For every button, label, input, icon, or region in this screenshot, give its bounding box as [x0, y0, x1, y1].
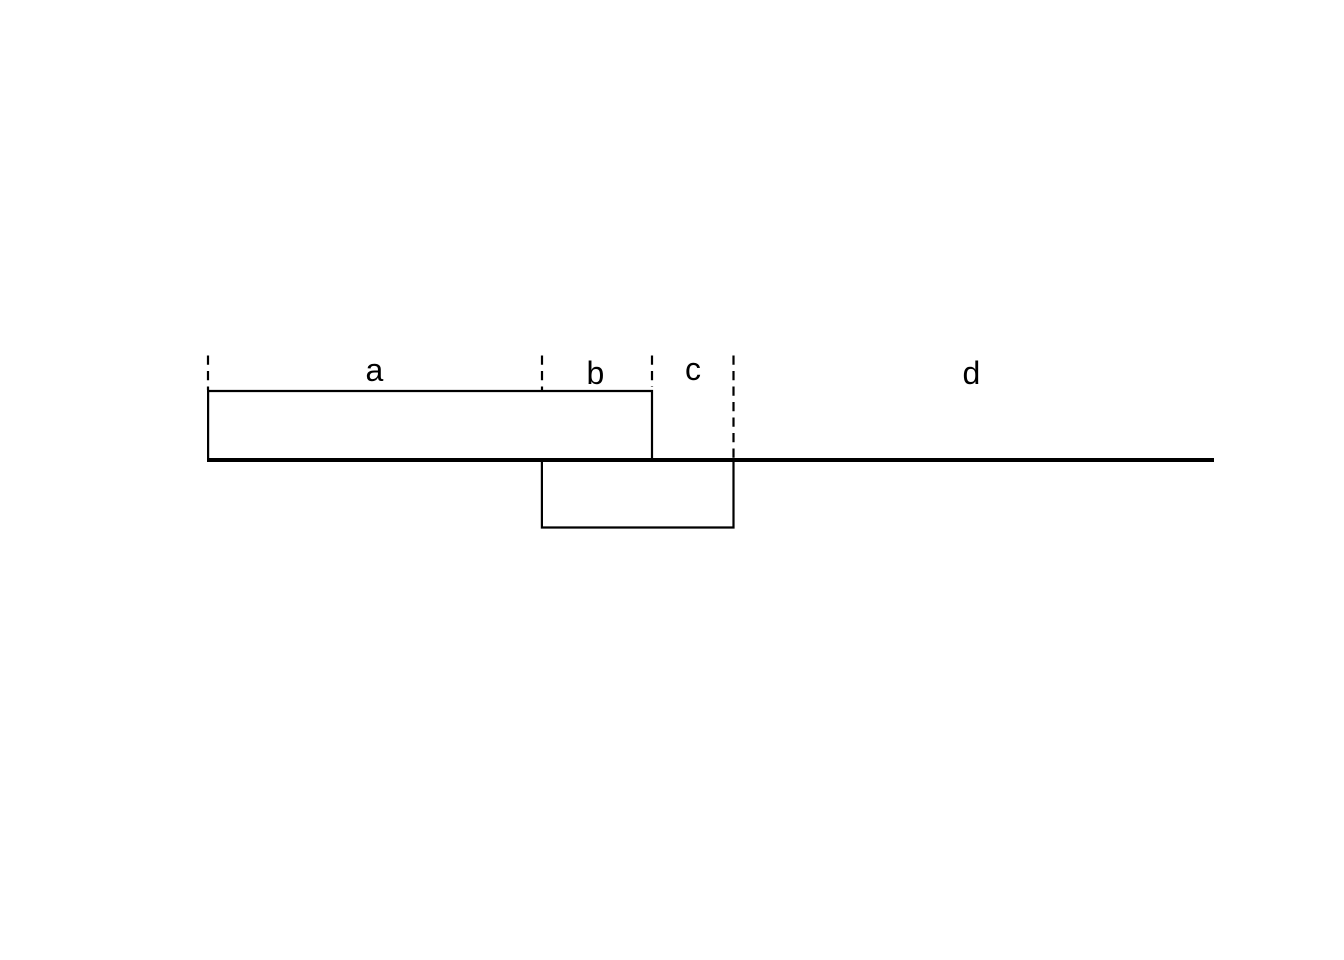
upper rectangle (exon above line, spans a+b) [208, 391, 652, 458]
svg-text:b: b [587, 355, 605, 391]
thick horizontal baseline [207, 458, 1214, 462]
svg-text:d: d [963, 355, 981, 391]
lower rectangle (below line, spans b+c) [542, 462, 734, 528]
svg-text:a: a [366, 352, 384, 388]
svg-text:c: c [685, 351, 701, 387]
dashed boundary line between c and d [732, 356, 734, 459]
dashed boundary line between a and b [541, 356, 543, 391]
dashed boundary line left of region a [207, 356, 209, 391]
dashed boundary line between b and c [651, 356, 653, 388]
